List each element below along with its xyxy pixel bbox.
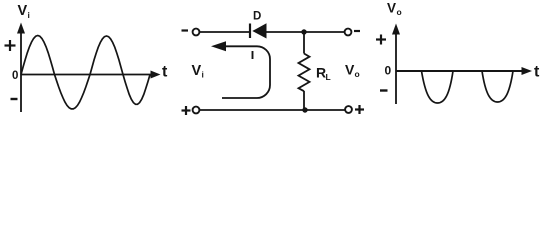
svg-text:t: t: [534, 64, 540, 81]
resistor RL: [299, 32, 310, 110]
input sine waveform Vi: [21, 36, 150, 109]
svg-text:D: D: [253, 11, 261, 23]
svg-text:0: 0: [385, 64, 392, 78]
minus polarity top-left terminal: [182, 29, 189, 31]
svg-text:L: L: [326, 72, 331, 82]
left plot vertical axis (Vi axis): [17, 23, 25, 113]
label RL: [316, 65, 331, 83]
output waveform lobe 2 (negative half-cycle): [482, 71, 513, 102]
terminal top-right: [345, 29, 352, 36]
minus polarity top-right terminal: [354, 30, 360, 32]
svg-text:o: o: [355, 69, 360, 79]
label plus (left plot): [5, 40, 16, 51]
junction dot bottom: [302, 107, 307, 112]
plus polarity bottom-right terminal: [355, 105, 364, 114]
plus polarity bottom-left terminal: [182, 106, 191, 115]
left plot horizontal axis (t axis): [21, 71, 161, 79]
svg-text:V: V: [192, 63, 202, 79]
diode D (cathode bar): [249, 24, 251, 39]
svg-text:V: V: [18, 3, 28, 19]
label Vi (left plot axis label): [18, 3, 30, 20]
right plot vertical axis (Vo axis): [392, 24, 400, 105]
label plus (right plot): [376, 35, 386, 45]
diode D (triangle, pointing left): [252, 23, 266, 38]
junction dot top: [301, 29, 306, 34]
current direction arrow I (hook): [211, 41, 270, 98]
svg-text:t: t: [162, 64, 168, 81]
label minus (left plot): [11, 98, 18, 100]
svg-text:V: V: [345, 62, 355, 78]
svg-text:0: 0: [12, 70, 18, 82]
terminal bottom-right: [345, 106, 352, 113]
label Vo (circuit output label): [345, 62, 360, 80]
wire top-left segment: [200, 31, 249, 33]
output waveform lobe 1 (negative half-cycle): [422, 71, 454, 103]
svg-text:V: V: [387, 1, 396, 16]
label Vo (right plot axis label): [387, 1, 402, 18]
right plot horizontal axis (t axis): [396, 67, 532, 75]
wire bottom: [200, 109, 345, 111]
terminal bottom-left: [193, 107, 200, 114]
svg-text:i: i: [28, 10, 30, 20]
terminal top-left: [193, 29, 200, 36]
svg-text:i: i: [202, 70, 204, 80]
label minus (right plot): [380, 89, 388, 91]
label I: [252, 51, 254, 59]
svg-text:o: o: [397, 7, 402, 17]
label Vi (source label in circuit): [192, 63, 204, 80]
wire top-right segment: [266, 31, 345, 33]
